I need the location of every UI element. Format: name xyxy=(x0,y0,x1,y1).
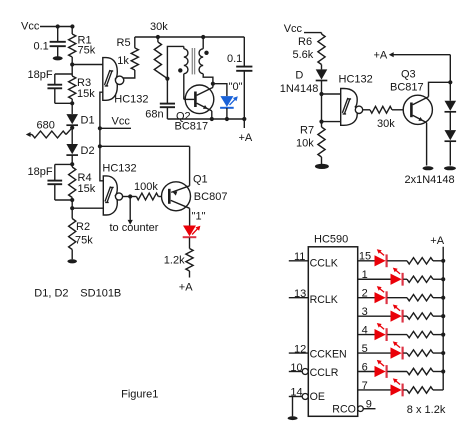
svg-text:CCKEN: CCKEN xyxy=(310,348,347,360)
svg-text:"1": "1" xyxy=(192,210,206,222)
svg-text:R5: R5 xyxy=(117,37,131,49)
svg-text:BC817: BC817 xyxy=(175,121,209,133)
svg-text:+A: +A xyxy=(430,235,444,247)
svg-text:15: 15 xyxy=(359,251,371,263)
svg-text:D2: D2 xyxy=(81,145,95,157)
svg-text:R7: R7 xyxy=(300,125,314,137)
svg-text:R6: R6 xyxy=(298,36,312,48)
svg-text:D: D xyxy=(295,69,303,81)
svg-text:Q3: Q3 xyxy=(401,68,416,80)
svg-text:HC132: HC132 xyxy=(102,162,136,174)
svg-text:75k: 75k xyxy=(75,234,93,246)
svg-text:OE: OE xyxy=(310,391,325,403)
svg-text:1N4148: 1N4148 xyxy=(280,83,319,95)
svg-text:8 x 1.2k: 8 x 1.2k xyxy=(407,404,446,416)
svg-text:RCO: RCO xyxy=(332,403,356,415)
svg-text:5: 5 xyxy=(362,343,368,355)
svg-text:30k: 30k xyxy=(377,118,395,130)
svg-text:5.6k: 5.6k xyxy=(293,49,314,61)
svg-text:BC807: BC807 xyxy=(194,191,228,203)
svg-text:3: 3 xyxy=(362,306,368,318)
svg-text:1.2k: 1.2k xyxy=(164,254,185,266)
svg-text:+A: +A xyxy=(374,50,388,62)
svg-text:"0": "0" xyxy=(229,81,243,93)
svg-text:0.1: 0.1 xyxy=(227,53,242,65)
svg-text:SD101B: SD101B xyxy=(80,288,121,300)
svg-text:2: 2 xyxy=(362,288,368,300)
svg-text:1: 1 xyxy=(362,269,368,281)
svg-text:Vcc: Vcc xyxy=(284,23,303,35)
svg-text:4: 4 xyxy=(362,324,368,336)
svg-text:RCLK: RCLK xyxy=(310,294,338,306)
svg-text:13: 13 xyxy=(294,288,306,300)
svg-text:11: 11 xyxy=(294,251,305,263)
svg-text:680: 680 xyxy=(37,119,55,131)
svg-text:15k: 15k xyxy=(77,88,95,100)
svg-text:CCLK: CCLK xyxy=(310,257,338,269)
svg-text:Vcc: Vcc xyxy=(21,21,40,33)
svg-text:to counter: to counter xyxy=(110,222,159,234)
svg-text:6: 6 xyxy=(362,361,368,373)
svg-text:18pF: 18pF xyxy=(28,69,53,81)
svg-text:D1: D1 xyxy=(81,115,95,127)
svg-text:HC132: HC132 xyxy=(339,73,373,85)
svg-text:75k: 75k xyxy=(78,45,96,57)
svg-text:BC817: BC817 xyxy=(390,81,424,93)
svg-text:7: 7 xyxy=(362,380,368,392)
svg-text:10: 10 xyxy=(290,362,302,374)
svg-text:15k: 15k xyxy=(78,183,96,195)
svg-text:Vcc: Vcc xyxy=(112,115,131,127)
svg-text:+A: +A xyxy=(239,132,253,144)
svg-text:68n: 68n xyxy=(145,108,163,120)
svg-text:2x1N4148: 2x1N4148 xyxy=(405,174,455,186)
svg-text:HC590: HC590 xyxy=(314,233,348,245)
svg-text:18pF: 18pF xyxy=(28,166,53,178)
svg-text:Q1: Q1 xyxy=(193,173,208,185)
svg-text:CCLR: CCLR xyxy=(310,367,339,379)
svg-text:100k: 100k xyxy=(134,181,158,193)
svg-text:R2: R2 xyxy=(76,221,90,233)
svg-text:Figure1: Figure1 xyxy=(121,389,158,401)
svg-text:12: 12 xyxy=(294,343,306,355)
svg-text:HC132: HC132 xyxy=(114,93,148,105)
svg-text:30k: 30k xyxy=(150,21,168,33)
svg-text:1k: 1k xyxy=(117,55,129,67)
svg-text:9: 9 xyxy=(366,399,372,411)
svg-text:D1, D2: D1, D2 xyxy=(34,288,68,300)
svg-text:+A: +A xyxy=(179,282,193,294)
svg-text:0.1: 0.1 xyxy=(34,41,49,53)
svg-text:10k: 10k xyxy=(296,138,314,150)
